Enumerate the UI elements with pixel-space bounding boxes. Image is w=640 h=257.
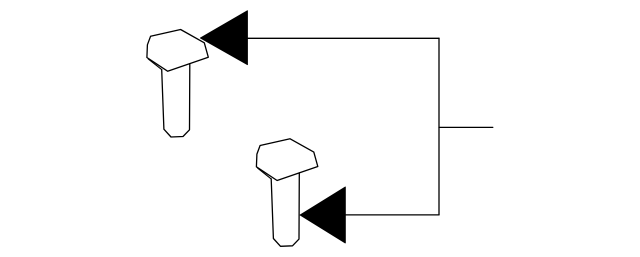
arrow to bolt 2 — [300, 187, 345, 243]
bolt 2 head outline — [256, 139, 317, 181]
wire from junction to arrow 2 — [345, 214, 439, 216]
bolt 1 head rim line — [148, 59, 162, 70]
arrow to bolt 1 — [200, 11, 247, 65]
bolt 1 head outline — [147, 30, 208, 72]
leader stub wire — [439, 126, 493, 128]
bolt 2 head rim line — [258, 168, 272, 179]
wire from arrow 1 to junction — [247, 37, 439, 39]
vertical wire — [438, 38, 440, 215]
bolt 2 shank — [271, 173, 299, 246]
bolt 1 shank — [162, 64, 190, 137]
